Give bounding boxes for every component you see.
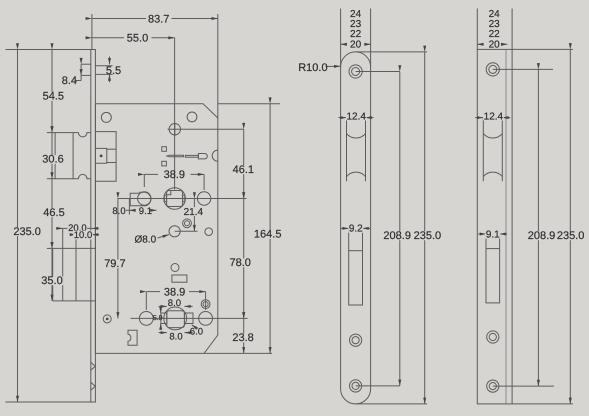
svg-text:38.9: 38.9 — [164, 286, 185, 298]
svg-text:235.0: 235.0 — [557, 230, 585, 242]
svg-text:83.7: 83.7 — [148, 13, 169, 25]
svg-text:235.0: 235.0 — [414, 230, 442, 242]
svg-text:208.9: 208.9 — [528, 230, 556, 242]
svg-text:208.9: 208.9 — [383, 230, 411, 242]
svg-text:54.5: 54.5 — [43, 91, 64, 103]
svg-text:12.4: 12.4 — [484, 111, 504, 122]
svg-text:9.2: 9.2 — [349, 224, 363, 235]
svg-text:23.8: 23.8 — [232, 332, 253, 344]
svg-text:46.1: 46.1 — [233, 164, 254, 176]
svg-text:38.9: 38.9 — [164, 169, 185, 181]
svg-text:6.0: 6.0 — [190, 326, 203, 337]
svg-text:8.0: 8.0 — [169, 332, 182, 343]
svg-text:55.0: 55.0 — [127, 33, 148, 45]
svg-text:35.0: 35.0 — [41, 275, 62, 287]
svg-text:9.1: 9.1 — [139, 206, 152, 217]
svg-text:10.0: 10.0 — [74, 230, 93, 241]
svg-text:8.4: 8.4 — [62, 75, 77, 87]
svg-text:21.4: 21.4 — [184, 207, 204, 218]
svg-text:164.5: 164.5 — [254, 229, 282, 241]
svg-text:20: 20 — [350, 39, 362, 50]
svg-text:78.0: 78.0 — [229, 257, 250, 269]
svg-text:Ø8.0: Ø8.0 — [134, 234, 156, 245]
svg-text:R10.0: R10.0 — [298, 62, 327, 74]
svg-text:5.5: 5.5 — [106, 65, 121, 77]
svg-text:79.7: 79.7 — [104, 258, 125, 270]
svg-text:12.4: 12.4 — [346, 111, 366, 122]
svg-text:20: 20 — [489, 39, 501, 50]
svg-text:46.5: 46.5 — [43, 207, 64, 219]
svg-text:5.9: 5.9 — [153, 315, 163, 322]
svg-text:235.0: 235.0 — [13, 226, 41, 238]
svg-text:8.0: 8.0 — [168, 298, 181, 309]
svg-text:8.0: 8.0 — [112, 206, 125, 217]
svg-text:9.1: 9.1 — [486, 229, 500, 240]
svg-text:30.6: 30.6 — [42, 154, 63, 166]
